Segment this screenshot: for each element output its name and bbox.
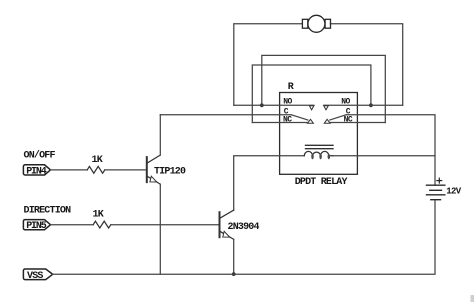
motor M1 <box>302 15 330 32</box>
wire: coil right wire to battery + rail <box>333 155 435 157</box>
corner artifact <box>471 295 474 302</box>
resistor R2 1K <box>93 221 111 228</box>
wire: R1 to TIP120 base <box>105 169 146 171</box>
node: junction dot on NO-right <box>369 103 373 107</box>
svg-text:ON/OFF: ON/OFF <box>24 150 56 162</box>
wire: NC-right line <box>330 122 385 124</box>
battery plus sign <box>437 178 442 183</box>
svg-text:PIN5: PIN5 <box>26 221 47 232</box>
tag PIN5 <box>23 220 50 230</box>
wire: PIN4 to R1 <box>51 169 88 171</box>
wire: VSS rail <box>53 200 435 275</box>
svg-text:DPDT RELAY: DPDT RELAY <box>295 177 348 188</box>
svg-text:12V: 12V <box>446 187 461 197</box>
tag PIN4 <box>23 165 50 175</box>
wire: TIP120 collector up <box>159 115 161 155</box>
wire: TIP120 emitter down to VSS <box>159 184 161 274</box>
transistor Q1 TIP120 <box>147 155 161 184</box>
svg-text:NC: NC <box>344 116 353 125</box>
wire: NC-left line <box>252 122 307 124</box>
wire: PIN5 to R2 <box>51 224 94 226</box>
svg-text:1K: 1K <box>92 155 103 166</box>
relay coil winding <box>304 151 333 155</box>
wire: C-right line to battery <box>346 115 435 186</box>
relay contact arrow left (on NC) <box>307 119 313 123</box>
relay contact marker: NO-left V <box>309 106 314 110</box>
svg-text:NO: NO <box>283 98 292 107</box>
svg-text:1K: 1K <box>93 209 104 220</box>
svg-text:R: R <box>288 82 294 93</box>
relay contact arrow right (on NC) <box>324 119 330 123</box>
svg-text:DIRECTION: DIRECTION <box>24 205 72 216</box>
relay arm right <box>330 115 347 120</box>
svg-text:NO: NO <box>341 98 350 107</box>
relay coil loop crossings <box>311 154 330 160</box>
relay coil core bars <box>306 145 334 148</box>
svg-text:NC: NC <box>283 116 292 125</box>
wire A: NO-left to NC-right crossover <box>262 55 386 122</box>
svg-text:2N3904: 2N3904 <box>228 222 260 233</box>
wire: motor top left segment <box>234 24 303 106</box>
svg-text:VSS: VSS <box>27 271 43 282</box>
svg-text:TIP120: TIP120 <box>154 167 186 178</box>
node: junction dot on NO-left <box>260 103 264 107</box>
relay K1 box <box>280 93 358 175</box>
tag VSS <box>23 269 52 280</box>
wire: NO-right line <box>324 104 403 106</box>
node: junction dot at 2N3904 emitter / VSS <box>232 272 236 276</box>
relay contact marker: NO-right V <box>324 106 329 110</box>
resistor R1 1K <box>87 166 105 173</box>
wire: coil left wire from 2N3904 collector <box>234 156 305 210</box>
wire B: NC-left to NO-right crossover <box>252 65 371 123</box>
relay arm left <box>291 115 308 120</box>
battery B1 12V <box>427 185 445 200</box>
transistor Q2 2N3904 <box>220 210 234 239</box>
wire: motor top right segment <box>330 24 402 106</box>
wire: 2N3904 emitter down to VSS <box>233 239 235 274</box>
svg-text:PIN4: PIN4 <box>26 166 47 177</box>
wire: C-left line from TIP120 collector <box>160 114 291 116</box>
wire: NO-left line <box>234 104 314 106</box>
wire: R2 to 2N3904 base <box>111 224 219 226</box>
